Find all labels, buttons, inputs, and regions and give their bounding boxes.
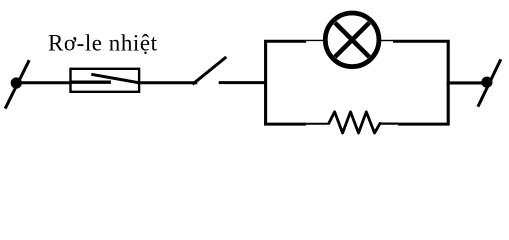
thermal relay RN box	[71, 69, 140, 92]
wire lamp lead-in left (thin)	[306, 39, 324, 41]
node A left junction vertical wire	[264, 41, 267, 124]
wire left terminal to relay box	[16, 81, 71, 84]
node B right junction vertical wire	[447, 41, 450, 124]
wire lamp lead-out right (thin)	[381, 40, 394, 42]
relay contact fixed lead	[71, 81, 111, 84]
switch K blade (open)	[193, 57, 227, 84]
svg-text:Rơ-le nhiệt: Rơ-le nhiệt	[48, 30, 158, 55]
wire switch to node A	[219, 81, 267, 84]
wire bottom branch left (thick)	[264, 123, 306, 126]
wire node B to right terminal	[447, 81, 487, 84]
wire top branch right (thick)	[393, 40, 450, 43]
terminal T2 (right, dot with slash)	[478, 59, 501, 106]
resistor R zigzag	[329, 112, 380, 133]
wire resistor lead-out right (thin)	[380, 122, 399, 124]
wire resistor lead-in left (thin)	[306, 123, 329, 125]
wire bottom branch right (thick)	[398, 123, 450, 126]
terminal T1 (left, dot with slash)	[5, 60, 29, 108]
lamp D (circle with X)	[325, 13, 379, 67]
wire relay to switch	[138, 81, 197, 84]
relay contact blade	[91, 74, 140, 83]
wire top branch left (thick)	[264, 40, 306, 43]
